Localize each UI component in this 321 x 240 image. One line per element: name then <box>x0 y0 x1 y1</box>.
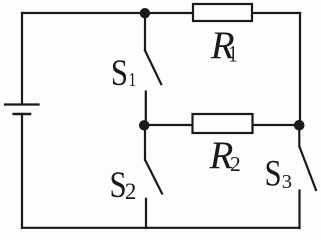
svg-text:2: 2 <box>230 152 241 176</box>
svg-text:1: 1 <box>129 68 137 91</box>
svg-text:1: 1 <box>228 41 237 68</box>
svg-text:3: 3 <box>282 171 292 193</box>
svg-text:S: S <box>265 153 282 195</box>
svg-text:2: 2 <box>125 179 136 204</box>
svg-text:S: S <box>111 52 128 94</box>
